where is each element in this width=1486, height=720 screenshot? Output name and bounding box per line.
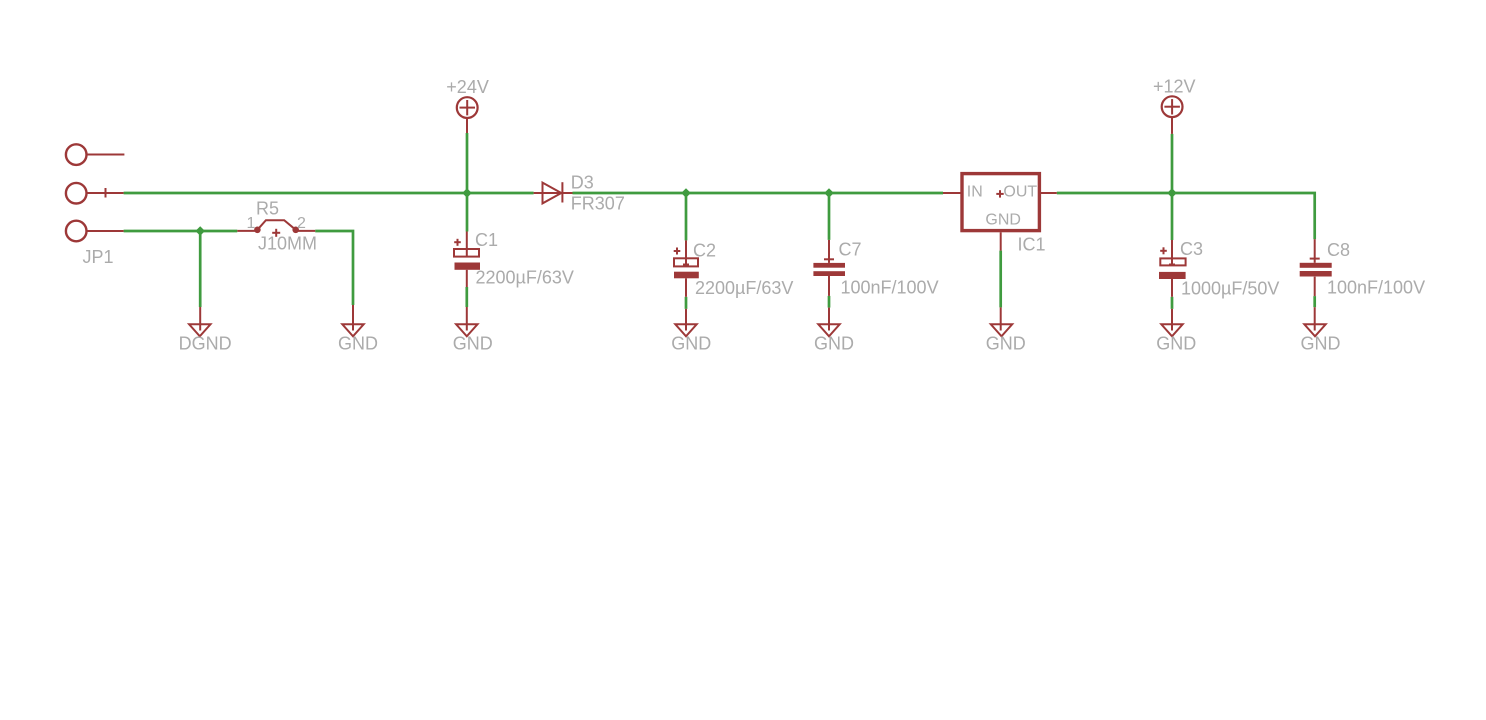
svg-text:J10MM: J10MM xyxy=(258,234,317,254)
svg-text:IN: IN xyxy=(967,183,983,200)
svg-text:C1: C1 xyxy=(475,230,498,250)
svg-text:C8: C8 xyxy=(1327,240,1350,260)
svg-text:GND: GND xyxy=(1301,334,1341,354)
svg-text:GND: GND xyxy=(986,334,1026,354)
svg-text:+24V: +24V xyxy=(446,77,489,97)
svg-text:2200µF/63V: 2200µF/63V xyxy=(695,278,793,298)
svg-text:C3: C3 xyxy=(1180,239,1203,259)
svg-text:2: 2 xyxy=(297,215,306,232)
svg-text:GND: GND xyxy=(338,334,378,354)
svg-text:DGND: DGND xyxy=(179,334,232,354)
svg-text:GND: GND xyxy=(985,212,1021,229)
svg-text:GND: GND xyxy=(1156,334,1196,354)
svg-text:IC1: IC1 xyxy=(1018,235,1046,255)
svg-text:100nF/100V: 100nF/100V xyxy=(841,278,939,298)
svg-text:+12V: +12V xyxy=(1153,76,1196,96)
svg-text:R5: R5 xyxy=(256,198,279,218)
svg-text:C7: C7 xyxy=(839,240,862,260)
svg-text:GND: GND xyxy=(814,334,854,354)
svg-text:1: 1 xyxy=(247,215,256,232)
svg-text:OUT: OUT xyxy=(1003,183,1037,200)
svg-text:2200µF/63V: 2200µF/63V xyxy=(476,268,574,288)
svg-text:GND: GND xyxy=(671,334,711,354)
svg-text:GND: GND xyxy=(453,334,493,354)
svg-text:1000µF/50V: 1000µF/50V xyxy=(1181,279,1279,299)
svg-text:D3: D3 xyxy=(571,172,594,192)
svg-text:C2: C2 xyxy=(693,240,716,260)
svg-text:FR307: FR307 xyxy=(571,193,625,213)
svg-text:100nF/100V: 100nF/100V xyxy=(1327,278,1425,298)
svg-text:JP1: JP1 xyxy=(83,247,114,267)
